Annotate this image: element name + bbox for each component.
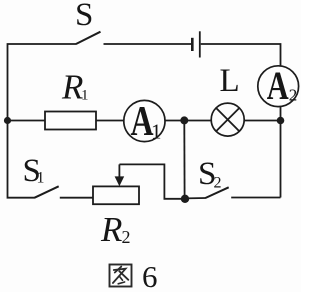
wire R1 to A1 — [96, 120, 124, 122]
wire lamp to right rail — [244, 120, 280, 122]
svg-text:L: L — [220, 63, 240, 99]
wire middle rail left — [8, 120, 46, 122]
wire top-middle segment — [104, 43, 192, 45]
wire wiper to bottom node — [119, 164, 185, 198]
ammeter A2 — [258, 66, 299, 107]
rheostat wiper arrow — [115, 164, 125, 186]
wire right vertical below A2 — [280, 106, 282, 197]
resistor R1 — [45, 112, 96, 130]
svg-text:1: 1 — [37, 170, 45, 187]
wire S2 to right rail — [231, 197, 280, 199]
switch S — [76, 32, 101, 44]
battery negative plate — [191, 38, 194, 51]
wire S1 to R2 — [60, 197, 93, 199]
node bottom junction — [181, 195, 189, 203]
caption 图 (hand-drawn glyph) — [110, 265, 132, 287]
svg-text:1: 1 — [81, 88, 89, 104]
wire node to S2 — [185, 197, 206, 199]
svg-text:6: 6 — [142, 259, 158, 292]
svg-text:2: 2 — [289, 86, 298, 105]
wire top-right segment — [201, 44, 281, 66]
wire A1 to lamp — [165, 120, 211, 122]
ammeter A1 — [124, 100, 165, 141]
node left junction — [4, 117, 11, 124]
lamp L — [211, 103, 244, 136]
svg-text:R: R — [100, 210, 122, 249]
svg-text:S: S — [75, 0, 93, 33]
svg-text:2: 2 — [214, 175, 222, 192]
switch S1 — [35, 186, 59, 197]
svg-text:2: 2 — [122, 227, 131, 247]
node between A1 and L — [180, 116, 188, 124]
battery positive plate — [199, 31, 201, 57]
wire top-left segment — [8, 44, 77, 121]
switch S2 — [205, 187, 228, 198]
svg-text:A: A — [267, 63, 289, 108]
node right junction — [277, 117, 285, 125]
svg-text:1: 1 — [151, 120, 162, 144]
wire middle branch down — [183, 121, 185, 199]
wire bottom-left segment — [8, 121, 36, 198]
rheostat R2 — [93, 186, 139, 204]
